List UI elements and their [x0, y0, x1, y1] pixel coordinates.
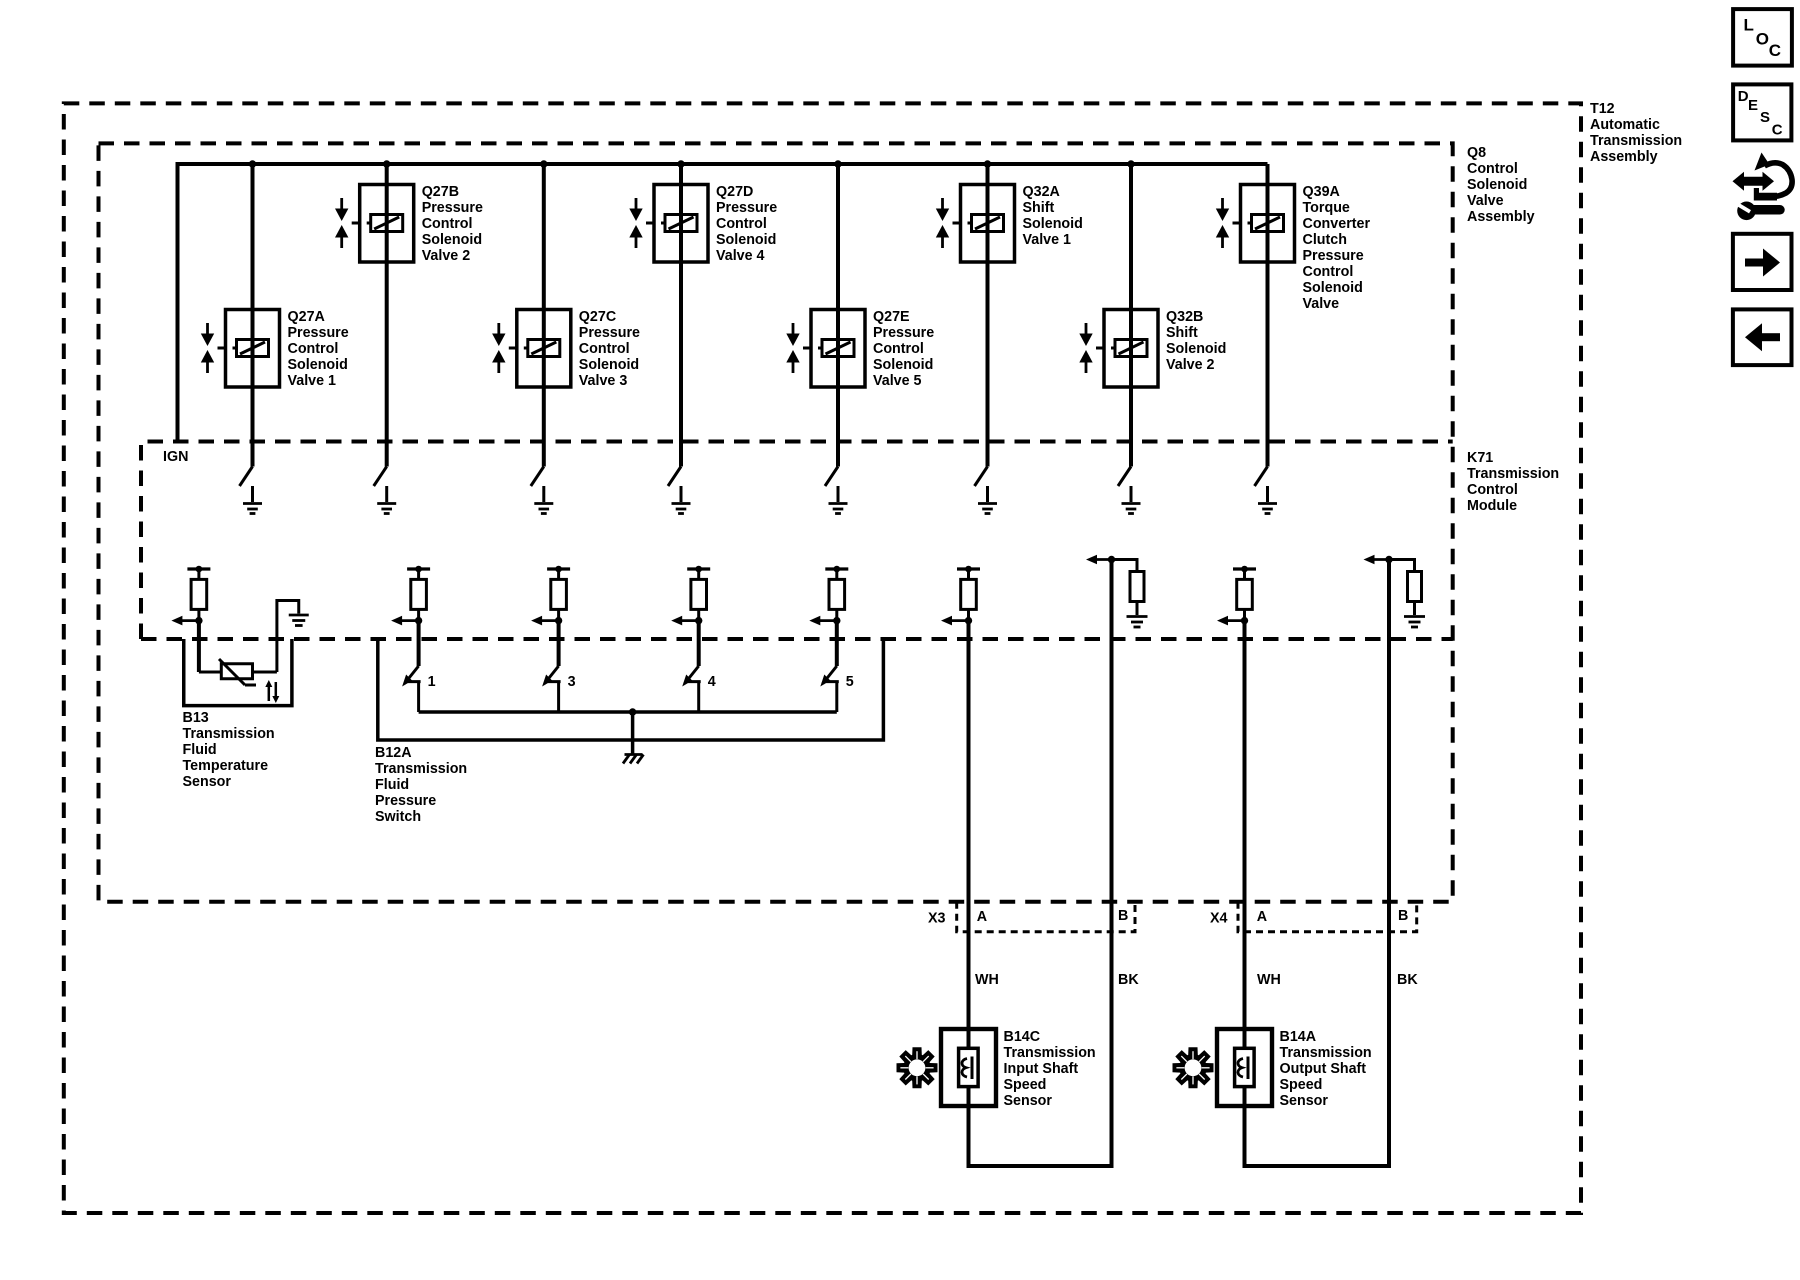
- ground bias output speed low: [1404, 617, 1425, 628]
- svg-text:Fluid: Fluid: [183, 742, 217, 758]
- svg-text:A: A: [977, 909, 987, 925]
- wire loop B14C: [969, 1160, 1112, 1166]
- driver switch for Q27B: [374, 467, 387, 487]
- svg-text:Torque: Torque: [1303, 200, 1350, 216]
- ground bias input speed low: [1127, 617, 1148, 628]
- ground for Q27D: [672, 486, 691, 514]
- solenoid Q39A: [1233, 185, 1295, 263]
- svg-text:5: 5: [846, 674, 854, 690]
- resistor pull-up output speed high: [1233, 566, 1256, 625]
- svg-text:Pressure: Pressure: [375, 793, 436, 809]
- svg-text:BK: BK: [1118, 972, 1139, 988]
- svg-text:Control: Control: [716, 216, 767, 232]
- resistor pull-up B12A switch 3 sense: [547, 566, 570, 625]
- svg-text:Pressure: Pressure: [288, 325, 349, 341]
- temperature arrows B13: [265, 680, 279, 703]
- svg-text:Valve 2: Valve 2: [422, 248, 471, 264]
- resistor pull-up input speed high: [957, 566, 980, 625]
- resistor bias input speed low: [1112, 560, 1145, 616]
- svg-text:Solenoid: Solenoid: [1166, 341, 1226, 357]
- ground for Q27B: [377, 486, 396, 514]
- svg-text:Pressure: Pressure: [873, 325, 934, 341]
- svg-text:Module: Module: [1467, 498, 1517, 514]
- svg-text:O: O: [1756, 30, 1769, 49]
- svg-text:Switch: Switch: [375, 809, 421, 825]
- svg-text:WH: WH: [1257, 972, 1281, 988]
- svg-text:1: 1: [428, 674, 436, 690]
- signal arrow B12A switch 3 sense: [531, 616, 559, 626]
- svg-text:B12A: B12A: [375, 745, 412, 761]
- valve symbol for Q27D: [629, 198, 642, 248]
- svg-text:Q27A: Q27A: [288, 309, 325, 325]
- node IGN label: [163, 449, 188, 465]
- svg-text:Transmission: Transmission: [1280, 1045, 1372, 1061]
- driver switch for Q39A: [1255, 467, 1268, 487]
- icon forward arrow: [1733, 234, 1792, 290]
- solenoid Q27A: [218, 310, 280, 388]
- svg-text:Assembly: Assembly: [1467, 209, 1535, 225]
- wire B12A switch 5 drop: [835, 621, 839, 666]
- solenoid Q27E: [803, 310, 865, 388]
- svg-text:B: B: [1398, 908, 1408, 924]
- ground B13: [289, 615, 309, 626]
- resistor pull-up B12A switch 1 sense: [407, 566, 430, 625]
- valve symbol for Q39A: [1216, 198, 1229, 248]
- signal arrow B12A switch 5 sense: [809, 616, 837, 626]
- sensor box B13: [184, 639, 292, 706]
- svg-text:Valve 4: Valve 4: [716, 248, 765, 264]
- svg-text:Valve 3: Valve 3: [579, 373, 628, 389]
- resistor bias output speed low: [1389, 560, 1422, 616]
- svg-text:Transmission: Transmission: [1004, 1045, 1096, 1061]
- svg-text:Valve 1: Valve 1: [1023, 232, 1072, 248]
- wire feed for Q32A: [986, 164, 990, 467]
- label B12A: [375, 745, 467, 825]
- icon wrench: [1737, 202, 1780, 221]
- dashed box Q8 Control Solenoid Valve Assembly: [99, 143, 1535, 901]
- svg-text:Shift: Shift: [1166, 325, 1198, 341]
- svg-text:BK: BK: [1397, 972, 1418, 988]
- pickup element B14C: [959, 1048, 979, 1166]
- connector X3: [928, 902, 1135, 932]
- svg-text:Solenoid: Solenoid: [873, 357, 933, 373]
- svg-text:Temperature: Temperature: [183, 758, 269, 774]
- signal arrow B13 sense: [171, 616, 199, 626]
- solenoid Q27D: [646, 185, 708, 263]
- signal arrow B12A switch 4 sense: [671, 616, 699, 626]
- svg-text:4: 4: [708, 674, 716, 690]
- wire B12A common bus: [419, 708, 837, 754]
- label Q39A: [1303, 184, 1371, 312]
- svg-text:Solenoid: Solenoid: [422, 232, 482, 248]
- svg-text:E: E: [1748, 97, 1758, 114]
- icon LOC: [1733, 9, 1792, 66]
- ground for Q27A: [243, 486, 262, 514]
- svg-text:B13: B13: [183, 710, 209, 726]
- svg-text:B14C: B14C: [1004, 1029, 1041, 1045]
- valve symbol for Q32B: [1079, 323, 1092, 373]
- svg-text:Solenoid: Solenoid: [1303, 280, 1363, 296]
- wire input speed signal WH: [967, 621, 971, 1049]
- svg-text:WH: WH: [975, 972, 999, 988]
- driver switch for Q32A: [975, 467, 988, 487]
- wire feed for Q32B: [1129, 164, 1133, 467]
- driver switch for Q27E: [825, 467, 838, 487]
- svg-text:A: A: [1257, 909, 1267, 925]
- signal arrow output speed high: [1217, 616, 1245, 626]
- svg-text:Valve 2: Valve 2: [1166, 357, 1215, 373]
- ground for Q27E: [829, 486, 848, 514]
- svg-text:Automatic: Automatic: [1590, 117, 1660, 133]
- wire feed for Q27E: [836, 164, 840, 467]
- wire B13 sense drop: [197, 621, 201, 672]
- svg-text:Solenoid: Solenoid: [288, 357, 348, 373]
- pickup element B14A: [1235, 1048, 1255, 1166]
- thermistor B13: [199, 659, 256, 685]
- svg-text:Speed: Speed: [1280, 1077, 1323, 1093]
- svg-text:K71: K71: [1467, 450, 1493, 466]
- svg-text:3: 3: [568, 674, 576, 690]
- wire B12A switch 3 drop: [557, 621, 561, 666]
- svg-text:Q27D: Q27D: [716, 184, 753, 200]
- svg-text:Q32B: Q32B: [1166, 309, 1203, 325]
- label Q32A: [1023, 184, 1083, 248]
- valve symbol for Q27B: [335, 198, 348, 248]
- svg-text:X3: X3: [928, 911, 946, 927]
- svg-text:Solenoid: Solenoid: [579, 357, 639, 373]
- wire loop B14A: [1245, 1160, 1390, 1166]
- wire feed for Q27B: [385, 164, 389, 467]
- resistor pull-up B12A switch 4 sense: [687, 566, 710, 625]
- wire output speed signal WH: [1243, 621, 1247, 1049]
- icon adjust double arrow: [1733, 172, 1775, 191]
- connector X4: [1210, 902, 1417, 932]
- wire feed for Q27C: [542, 164, 546, 467]
- label B13: [183, 710, 275, 790]
- driver switch for Q27A: [240, 467, 253, 487]
- label Q27D: [716, 184, 777, 264]
- svg-text:B: B: [1118, 908, 1128, 924]
- driver switch for Q32B: [1118, 467, 1131, 487]
- svg-text:Sensor: Sensor: [1280, 1093, 1329, 1109]
- svg-text:Q8: Q8: [1467, 145, 1486, 161]
- gear wheel B14C: [897, 1047, 938, 1088]
- label Q27B: [422, 184, 483, 264]
- svg-text:Pressure: Pressure: [1303, 248, 1364, 264]
- wire feed for Q27D: [679, 164, 683, 467]
- ground for Q39A: [1258, 486, 1277, 514]
- driver switch for Q27D: [668, 467, 681, 487]
- wire output speed return BK: [1387, 560, 1391, 1167]
- svg-text:Valve 5: Valve 5: [873, 373, 922, 389]
- svg-text:Solenoid: Solenoid: [1023, 216, 1083, 232]
- solenoid Q27C: [509, 310, 571, 388]
- dashed box T12 Automatic Transmission Assembly: [64, 101, 1682, 1213]
- wire B12A switch 1 drop: [417, 621, 421, 666]
- ground for Q32B: [1122, 486, 1141, 514]
- svg-text:Sensor: Sensor: [183, 774, 232, 790]
- svg-text:C: C: [1772, 121, 1783, 138]
- label Q32B: [1166, 309, 1226, 373]
- label B14A: [1280, 1029, 1372, 1109]
- svg-text:Q27B: Q27B: [422, 184, 459, 200]
- junction dots on ignition bus: [249, 160, 1135, 167]
- solenoid Q32B: [1096, 310, 1158, 388]
- svg-text:Sensor: Sensor: [1004, 1093, 1053, 1109]
- svg-text:Control: Control: [422, 216, 473, 232]
- svg-text:Transmission: Transmission: [375, 761, 467, 777]
- pressure switch contact 5: [820, 666, 854, 712]
- valve symbol for Q27A: [201, 323, 214, 373]
- signal arrow input speed high: [941, 616, 969, 626]
- svg-text:T12: T12: [1590, 101, 1615, 117]
- svg-text:Transmission: Transmission: [1467, 466, 1559, 482]
- svg-text:Transmission: Transmission: [183, 726, 275, 742]
- valve symbol for Q27C: [492, 323, 505, 373]
- svg-text:Valve: Valve: [1303, 296, 1340, 312]
- valve symbol for Q27E: [786, 323, 799, 373]
- wire B12A switch 4 drop: [697, 621, 701, 666]
- label Q27C: [579, 309, 640, 389]
- signal arrow B12A switch 1 sense: [391, 616, 419, 626]
- icon adjust rotate arrow: [1754, 153, 1792, 201]
- wire B13 to ground: [253, 601, 299, 673]
- switch box B12A: [378, 639, 884, 740]
- wire feed for Q39A: [1266, 164, 1270, 467]
- icon DESC: [1733, 84, 1791, 140]
- svg-text:Pressure: Pressure: [579, 325, 640, 341]
- sensor box B14C: [941, 1029, 996, 1106]
- svg-text:Control: Control: [288, 341, 339, 357]
- svg-text:Q39A: Q39A: [1303, 184, 1340, 200]
- svg-text:Converter: Converter: [1303, 216, 1371, 232]
- svg-text:Control: Control: [1467, 161, 1518, 177]
- svg-text:Assembly: Assembly: [1590, 149, 1658, 165]
- svg-text:X4: X4: [1210, 911, 1228, 927]
- svg-text:L: L: [1744, 16, 1754, 35]
- svg-text:Pressure: Pressure: [716, 200, 777, 216]
- label B14C: [1004, 1029, 1096, 1109]
- wire feed for Q27A: [251, 164, 255, 467]
- svg-text:Q32A: Q32A: [1023, 184, 1060, 200]
- wire color labels: [975, 972, 1418, 988]
- resistor pull-up B12A switch 5 sense: [825, 566, 848, 625]
- svg-text:Pressure: Pressure: [422, 200, 483, 216]
- signal arrow output speed low: [1364, 555, 1393, 565]
- label Q27A: [288, 309, 349, 389]
- svg-text:Solenoid: Solenoid: [716, 232, 776, 248]
- chassis ground B12A: [623, 755, 644, 764]
- svg-text:Valve: Valve: [1467, 193, 1504, 209]
- svg-text:Fluid: Fluid: [375, 777, 409, 793]
- svg-text:Valve 1: Valve 1: [288, 373, 337, 389]
- ground for Q27C: [534, 486, 553, 514]
- ground for Q32A: [978, 486, 997, 514]
- svg-text:Shift: Shift: [1023, 200, 1055, 216]
- svg-text:Solenoid: Solenoid: [1467, 177, 1527, 193]
- valve symbol for Q32A: [936, 198, 949, 248]
- pressure switch contact 3: [542, 666, 576, 712]
- svg-text:Clutch: Clutch: [1303, 232, 1347, 248]
- sensor box B14A: [1217, 1029, 1272, 1106]
- icon back arrow: [1733, 309, 1792, 365]
- svg-text:Transmission: Transmission: [1590, 133, 1682, 149]
- pressure switch contact 4: [682, 666, 716, 712]
- svg-text:Control: Control: [1467, 482, 1518, 498]
- wire ignition bus: [176, 162, 1268, 442]
- svg-text:Control: Control: [873, 341, 924, 357]
- svg-text:Q27C: Q27C: [579, 309, 616, 325]
- svg-text:Output Shaft: Output Shaft: [1280, 1061, 1367, 1077]
- svg-text:S: S: [1760, 109, 1770, 126]
- svg-text:B14A: B14A: [1280, 1029, 1317, 1045]
- resistor pull-up B13 sense: [187, 566, 210, 625]
- svg-text:Speed: Speed: [1004, 1077, 1047, 1093]
- svg-text:IGN: IGN: [163, 449, 188, 465]
- gear wheel B14A: [1173, 1047, 1214, 1088]
- wire input speed return BK: [1110, 560, 1114, 1167]
- svg-text:Q27E: Q27E: [873, 309, 910, 325]
- svg-text:Control: Control: [579, 341, 630, 357]
- dashed box K71 Transmission Control Module: [141, 442, 1559, 640]
- pressure switch contact 1: [402, 666, 436, 712]
- svg-text:Control: Control: [1303, 264, 1354, 280]
- svg-text:Input Shaft: Input Shaft: [1004, 1061, 1079, 1077]
- solenoid Q27B: [352, 185, 414, 263]
- solenoid Q32A: [953, 185, 1015, 263]
- label Q27E: [873, 309, 934, 389]
- driver switch for Q27C: [531, 467, 544, 487]
- signal arrow input speed low: [1086, 555, 1115, 565]
- svg-text:C: C: [1769, 41, 1781, 60]
